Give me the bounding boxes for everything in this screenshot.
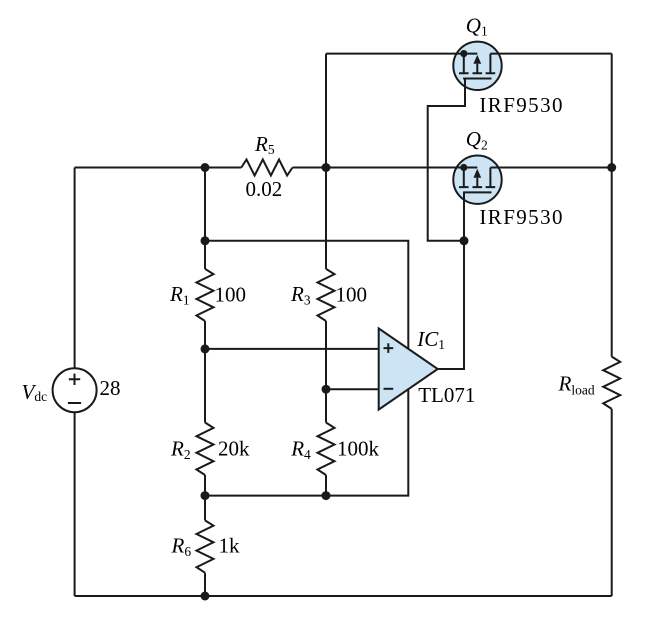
- svg-text:IC1: IC1: [416, 327, 445, 352]
- wire R2 bottom to R6 top: [204, 475, 206, 520]
- node R2 bottom: [201, 491, 210, 500]
- svg-text:20k: 20k: [218, 436, 250, 460]
- transistor Q2 drain stub: [486, 168, 496, 188]
- node R3-R4 / inverting input: [322, 385, 331, 394]
- svg-text:R4: R4: [290, 436, 311, 462]
- op-amp IC1 minus input marker: [384, 388, 394, 390]
- svg-text:Vdc: Vdc: [22, 380, 48, 404]
- wire right rail upper segment: [611, 54, 613, 357]
- transistor Q1 body circle: [453, 42, 501, 90]
- transistor Q1: [453, 42, 501, 90]
- resistor R1 zigzag: [197, 269, 214, 321]
- node gates / op-amp output: [460, 236, 469, 245]
- wire R1 column from R5-left node down to R1: [204, 168, 206, 269]
- svg-text:R6: R6: [171, 533, 192, 558]
- wire op-amp output to gates junction: [438, 241, 464, 369]
- svg-text:R3: R3: [290, 282, 311, 307]
- wire Q2 drain to right rail: [490, 167, 611, 169]
- resistor R5 zigzag: [241, 160, 292, 176]
- svg-text:1k: 1k: [219, 534, 241, 558]
- resistor R4 zigzag: [318, 423, 335, 476]
- svg-text:TL071: TL071: [418, 383, 475, 407]
- voltage source plus sign: [69, 374, 80, 385]
- wire left rail lower: [74, 412, 76, 596]
- resistor R6 zigzag: [197, 520, 214, 572]
- transistor Q2 source stub and body dot: [459, 168, 477, 188]
- resistor R3 zigzag: [318, 269, 335, 321]
- wire R5 row: left rail corner to R5 left: [75, 167, 242, 169]
- resistor Rload zigzag: [603, 357, 620, 409]
- transistor Q2 gate bar: [463, 191, 491, 193]
- svg-text:Q2: Q2: [466, 127, 488, 152]
- op-amp IC1 plus input marker: [384, 343, 394, 353]
- wire top rail from node at x=326 to Q1 source: [326, 53, 464, 55]
- node Q2 drain on right rail: [607, 163, 616, 172]
- transistor Q2 body arrow: [473, 178, 483, 187]
- transistor Q2 body circle: [453, 156, 501, 204]
- wire row2: node A to op-amp V+ supply: [205, 241, 408, 348]
- node R5 right / Q2 source: [322, 163, 331, 172]
- wire lower node row to op-amp V- supply: [205, 390, 408, 496]
- resistor R2 zigzag: [197, 423, 214, 476]
- transistor Q1 gate bar: [463, 78, 491, 80]
- svg-text:R5: R5: [254, 132, 275, 157]
- svg-text:0.02: 0.02: [246, 177, 283, 201]
- wire Q2 source row from node x=326: [326, 167, 464, 169]
- node R1-R2 / noninverting input: [201, 344, 210, 353]
- wire inverting input row: [326, 388, 379, 390]
- voltage source Vdc circle: [53, 368, 97, 412]
- voltage source minus sign: [68, 402, 81, 404]
- svg-text:100: 100: [215, 282, 247, 306]
- svg-text:28: 28: [100, 376, 121, 400]
- wire bottom rail: [75, 595, 612, 597]
- wire R6 bottom to bottom rail: [204, 573, 206, 596]
- node R6 bottom on bottom rail: [201, 592, 210, 601]
- transistor Q1 drain stub: [486, 54, 496, 74]
- svg-text:Rload: Rload: [558, 372, 595, 398]
- wire R1 bottom to R2 top: [204, 321, 206, 423]
- wire Q1 gate lead and jog down to junction: [428, 79, 465, 241]
- transistor Q2: [453, 156, 501, 204]
- wire vertical from top rail down to R5 right node and R3 top: [325, 54, 327, 269]
- node R4 bottom: [322, 491, 331, 500]
- svg-text:100: 100: [336, 282, 368, 306]
- transistor Q1 source stub and body dot: [459, 54, 477, 74]
- node row2 left: [201, 236, 210, 245]
- wire noninverting input row: [205, 348, 379, 350]
- svg-text:R1: R1: [169, 282, 190, 307]
- wire R5 right lead to node: [293, 167, 327, 169]
- svg-text:IRF9530: IRF9530: [479, 93, 563, 117]
- op-amp IC1 triangle: [379, 328, 438, 409]
- wire R3 bottom to R4 top: [325, 321, 327, 423]
- svg-text:100k: 100k: [337, 436, 380, 460]
- wire R4 bottom to lower node row: [325, 475, 327, 496]
- wire right rail lower segment: [611, 409, 613, 596]
- svg-text:R2: R2: [170, 436, 191, 462]
- transistor Q1 body arrow: [473, 64, 483, 73]
- node R5 left: [201, 163, 210, 172]
- svg-text:IRF9530: IRF9530: [479, 205, 563, 229]
- wire left rail upper: [74, 168, 76, 369]
- wire Q2 gate lead down to junction: [463, 192, 465, 240]
- svg-text:Q1: Q1: [466, 13, 488, 38]
- wire Q1 drain to right rail: [490, 53, 611, 55]
